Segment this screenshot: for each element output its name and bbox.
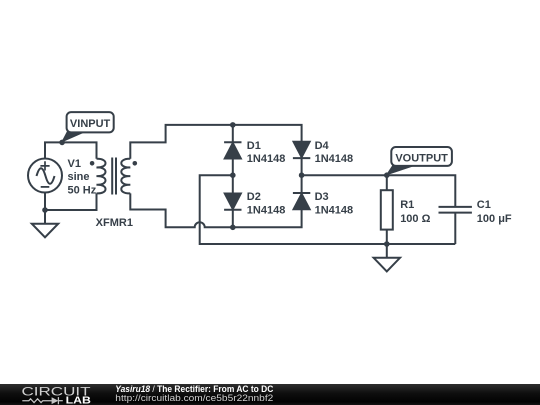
node R1 bottom — [384, 241, 390, 247]
wire bridge left rail upper — [232, 125, 234, 142]
svg-text:50 Hz: 50 Hz — [68, 184, 97, 196]
diode D1 — [224, 142, 241, 159]
svg-text:1N4148: 1N4148 — [315, 204, 354, 216]
diode D3 — [293, 193, 310, 210]
diode D4 — [293, 141, 310, 158]
wire V1 bottom to transformer primary bottom — [45, 192, 97, 210]
svg-text:XFMR1: XFMR1 — [96, 217, 133, 229]
diode D2 — [224, 193, 241, 210]
wire mid-right node to VOUTPUT node and C1 — [302, 175, 456, 207]
wire V1 ground stub — [44, 210, 46, 224]
svg-text:VINPUT: VINPUT — [70, 118, 111, 130]
wire R1 ground stub — [386, 244, 388, 258]
wire bridge left rail D2 — [232, 175, 234, 193]
node bridge mid-left — [230, 172, 236, 178]
svg-text:D2: D2 — [247, 191, 261, 203]
transformer primary polarity dot — [90, 161, 95, 166]
transformer secondary polarity dot — [133, 161, 138, 166]
net label VOUTPUT — [387, 147, 452, 175]
node bridge mid-right — [299, 172, 305, 178]
svg-text:R1: R1 — [400, 199, 414, 211]
wire V1 top to transformer primary — [45, 142, 97, 158]
ground (below V1) — [32, 224, 58, 238]
wire secondary top to bridge top — [130, 125, 301, 159]
footer bar — [0, 384, 540, 405]
wire bridge left rail D1 anode to mid node — [232, 159, 234, 175]
wire D2 cathode to bottom rail — [232, 210, 234, 228]
resistor R1 — [381, 190, 393, 229]
capacitor C1 — [439, 207, 472, 213]
svg-text:VOUTPUT: VOUTPUT — [395, 152, 448, 164]
svg-text:1N4148: 1N4148 — [315, 153, 354, 165]
node bridge bottom — [230, 225, 236, 231]
svg-text:LAB: LAB — [66, 395, 91, 405]
svg-text:C1: C1 — [477, 199, 491, 211]
node VOUTPUT — [384, 172, 390, 178]
wire D3 cathode stub — [301, 175, 303, 193]
wire R1 top stub — [386, 175, 388, 190]
svg-text:V1: V1 — [68, 158, 81, 170]
node V1 bottom — [42, 207, 48, 213]
wire mid-left node down to bottom output rail — [200, 175, 456, 244]
svg-text:1N4148: 1N4148 — [247, 204, 286, 216]
svg-text:sine: sine — [68, 171, 90, 183]
svg-text:D3: D3 — [315, 191, 329, 203]
voltage source V1 — [28, 159, 62, 193]
svg-text:100 μF: 100 μF — [477, 213, 512, 225]
wire D4 cathode to mid-right node — [301, 158, 303, 175]
net label VINPUT — [62, 112, 114, 142]
wire C1 bottom stub — [454, 213, 456, 244]
logo resistor-diode squiggle — [22, 397, 63, 404]
node bridge top — [230, 122, 236, 128]
wire R1 bottom stub — [386, 230, 388, 244]
wire secondary bottom to bridge bottom with crossover hump — [130, 193, 301, 227]
svg-text:100 Ω: 100 Ω — [400, 213, 430, 225]
ground (below R1) — [374, 258, 400, 272]
svg-text:D4: D4 — [315, 140, 330, 152]
transformer XFMR1 — [97, 158, 131, 195]
svg-text:http://circuitlab.com/ce5b5r22: http://circuitlab.com/ce5b5r22nnbf2 — [115, 393, 273, 403]
svg-text:D1: D1 — [247, 140, 261, 152]
node VINPUT — [59, 140, 65, 146]
svg-text:1N4148: 1N4148 — [247, 153, 286, 165]
